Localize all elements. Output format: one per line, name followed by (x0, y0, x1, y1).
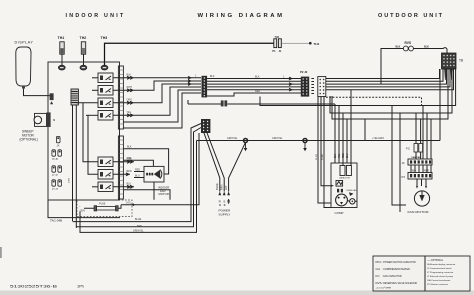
terminal chevrons before J2 (289, 77, 292, 91)
terminal chevrons before P2 (188, 76, 191, 85)
svg-text:: COMPRESSOR HEATER: : COMPRESSOR HEATER (382, 268, 410, 271)
wire bundle tail TB right (450, 69, 452, 80)
wire bundle b2 (207, 80, 301, 82)
connector J5 pills (52, 150, 56, 156)
wire TH2 lead (83, 54, 85, 65)
terminal arrows RY1 out (113, 76, 134, 79)
svg-text:JA: JA (57, 145, 60, 148)
wire branch J3 drops (423, 106, 431, 160)
compressor assembly box (331, 163, 357, 208)
terminal arrow E (227, 192, 230, 196)
connector J-A pill (56, 136, 60, 142)
svg-text:G/Y: G/Y (224, 185, 228, 190)
terminal block TB (442, 53, 457, 69)
wire bundle b3 (207, 83, 301, 85)
svg-text:: REVERSING VALVE SOLENOID: : REVERSING VALVE SOLENOID (382, 282, 417, 285)
svg-text:J5 Communication board: J5 Communication board (427, 267, 452, 270)
ground symbol 2 (303, 139, 307, 143)
svg-text:YEL: YEL (339, 153, 341, 158)
wire power slant E from earth point (229, 142, 246, 191)
wire P3 to fan motor (417, 179, 426, 187)
svg-text:GRN/YEL: GRN/YEL (133, 229, 144, 232)
svg-text:OUTDOOR UNIT: OUTDOOR UNIT (378, 13, 444, 19)
wire branch y119 (332, 69, 448, 119)
svg-text:FAN MOTOR: FAN MOTOR (408, 210, 430, 214)
capacitor CH (340, 166, 345, 176)
wire power slant S (207, 132, 225, 192)
wire outdoor aux drop 1 (392, 106, 406, 206)
connector TH1 socket (58, 65, 65, 70)
svg-text:CH: CH (376, 267, 380, 271)
svg-text:M: M (53, 118, 55, 122)
fuse F1 (94, 206, 97, 211)
wire trunk t5 (326, 69, 454, 90)
wire fan YEL (123, 160, 153, 166)
wire fan box bottom drop (153, 182, 155, 200)
wire outdoor left drop 3 (324, 96, 331, 208)
svg-text:FUSE: FUSE (99, 203, 106, 206)
svg-text:BLU: BLU (135, 174, 140, 177)
wire staircase w6 (123, 93, 201, 128)
svg-text:TH3: TH3 (101, 36, 108, 40)
svg-text:BLK: BLK (210, 75, 215, 78)
svg-text:24.5: 24.5 (126, 201, 131, 204)
svg-text:YEL: YEL (127, 157, 132, 160)
node TH4 sensor (309, 42, 312, 45)
indoor fan motor box (144, 166, 164, 182)
terminal arrows RY4 out (113, 114, 134, 117)
connector CN-DISP on board edge (50, 93, 54, 100)
terminal arrows RY6 out (113, 173, 130, 176)
svg-text:GRN/YEL: GRN/YEL (272, 137, 283, 140)
svg-text:BLK: BLK (255, 75, 260, 78)
connector TH3 socket (101, 65, 108, 70)
connector block J2 outdoor half (318, 77, 326, 97)
wire bundle b1 (207, 78, 301, 80)
svg-text:BLUE: BLUE (215, 183, 219, 190)
wire outdoor left drop 1 (318, 96, 331, 203)
svg-text:BLK: BLK (396, 45, 401, 48)
wire comp feed 2 (338, 106, 340, 164)
wire bundle tail TB left (444, 69, 446, 80)
relay RY3 (98, 98, 113, 108)
terminal arrow R (218, 192, 221, 196)
svg-text:J5 J5: J5 J5 (52, 158, 58, 161)
wire comp feed 5 (350, 90, 352, 166)
svg-text:CAPACITOR: CAPACITOR (339, 177, 350, 180)
wire TH4 thin (282, 42, 309, 44)
transformer T1 (71, 89, 78, 105)
connector JT pills (52, 180, 56, 186)
wire staircase w2 (134, 81, 201, 90)
left edge scan mark (0, 247, 2, 258)
svg-text:JA Remote display connector: JA Remote display connector (427, 263, 456, 266)
svg-text:J3: J3 (402, 161, 405, 165)
svg-text:23.8Ω: 23.8Ω (322, 154, 324, 160)
svg-text:+YEL/GRN: +YEL/GRN (372, 137, 384, 140)
overload protector OLP (336, 181, 343, 187)
relay RY6 (98, 170, 113, 180)
terminal arrows RY2 out (113, 89, 134, 92)
wire GRN/YEL bottom to ground bus (80, 141, 197, 233)
svg-text:TH4: TH4 (275, 36, 280, 39)
svg-text:BLUE: BLUE (135, 218, 142, 221)
wire outdoor aux drop 2 (399, 113, 401, 212)
wire TH1 lead (61, 54, 63, 65)
wire sensor line to outdoor (227, 103, 335, 105)
connector block P2 indoor half (202, 76, 208, 98)
terminal arrows RY3 out (113, 101, 134, 104)
indoor control board box TAC-04B (48, 62, 120, 200)
svg-text:RED: RED (343, 153, 345, 158)
terminal arrows RY7 out (113, 185, 134, 188)
wire optional dashed link (326, 97, 422, 105)
svg-text:J2A Current transformer: J2A Current transformer (427, 279, 451, 282)
svg-text:RED: RED (135, 168, 140, 171)
wire trunk t3 (326, 69, 447, 84)
svg-text:TH4: TH4 (314, 42, 320, 46)
connector power block PJ (201, 119, 210, 133)
connector TH2 socket (80, 65, 87, 70)
svg-text:230V: 230V (69, 177, 71, 183)
wire staircase w3 (134, 84, 201, 103)
wire BRN bottom (76, 128, 201, 227)
wire y119 to ground tap (364, 119, 366, 141)
svg-text:JT3 Heater connector: JT3 Heater connector (427, 283, 448, 286)
wire trunk t2 (326, 69, 443, 81)
svg-text:COMP: COMP (335, 211, 344, 215)
svg-text:MOTOR: MOTOR (159, 192, 169, 196)
svg-text:BRN: BRN (127, 187, 132, 190)
wire sensor line mid (188, 100, 221, 104)
svg-text:RVS: RVS (376, 281, 382, 285)
svg-text:WIRING DIAGRAM: WIRING DIAGRAM (198, 13, 285, 19)
connector CN mid pair (221, 100, 224, 106)
relay RY1 (98, 73, 113, 83)
svg-text:P2 J2: P2 J2 (300, 70, 308, 74)
wire power slant R (204, 132, 220, 192)
svg-text:: POWER FACTOR CAPACITOR: : POWER FACTOR CAPACITOR (382, 261, 416, 264)
relay RY4 (98, 111, 113, 121)
svg-text:SUPPLY: SUPPLY (219, 212, 231, 216)
wire J3 to P3 (411, 165, 431, 173)
wire trunk t4 (326, 69, 450, 87)
wire branch y105 (260, 69, 456, 106)
pcb edge connector strip upper (118, 66, 123, 129)
svg-text:BLK: BLK (424, 45, 429, 48)
wire staircase w4 (134, 87, 201, 115)
pcb edge connector strip lower (118, 136, 123, 199)
svg-text:(OPTIONAL): (OPTIONAL) (20, 138, 38, 142)
indoor fan motor M propeller (146, 173, 148, 176)
svg-text:51302525T36-B: 51302525T36-B (10, 284, 58, 289)
svg-text:1Ph: 1Ph (77, 285, 84, 289)
wire bundle b6 stepped (207, 93, 301, 96)
wire bundle b5 (207, 89, 301, 91)
wire RY1 stub (92, 77, 98, 79)
bottom scan band (0, 291, 474, 295)
wire ground bus (197, 140, 441, 142)
wire T1 secondary right (75, 105, 77, 228)
svg-text:J7 J7: J7 J7 (52, 174, 58, 177)
svg-text:BRN: BRN (127, 170, 132, 173)
thermal protector TP (350, 199, 355, 204)
wire bus to lower relays A (83, 103, 98, 162)
connector SM plug on board edge (46, 112, 50, 127)
wire branch y113 (330, 69, 452, 113)
terminal arrows RY5 out (113, 160, 134, 163)
wire FC feeds (416, 113, 421, 159)
relay RY2 (98, 86, 113, 96)
legend box (373, 256, 470, 291)
compressor COMP (336, 194, 348, 206)
svg-text:INDOOR UNIT: INDOOR UNIT (66, 13, 126, 19)
wire heater to power block (121, 133, 199, 205)
connector ticks J2 (311, 79, 314, 94)
svg-text:: FAN CAPACITOR: : FAN CAPACITOR (382, 275, 402, 278)
relay RY7 (98, 182, 113, 192)
connector mark box left (331, 185, 334, 187)
svg-text:P3: P3 (402, 175, 406, 179)
ground symbol 1 (244, 139, 248, 143)
wire fan BLU (134, 177, 144, 179)
svg-text:-----OPTIONAL: -----OPTIONAL (427, 259, 444, 262)
svg-text:BLK: BLK (335, 153, 337, 158)
wire comp feed 4 (346, 119, 348, 163)
wire comp feed 1 (334, 104, 336, 163)
compressor pins (337, 189, 339, 193)
wire TB ground drop (439, 69, 441, 141)
fuse box dashed (optional heater) (77, 200, 132, 217)
svg-text:S: S (223, 200, 225, 204)
relay RY5 (98, 157, 113, 167)
svg-text:TB: TB (459, 59, 463, 63)
svg-text:P1: P1 (272, 49, 276, 53)
wire TH3 thick lead (105, 43, 275, 65)
wire fan BLK (123, 149, 168, 174)
wire fan RED (134, 171, 144, 173)
svg-text:TH2: TH2 (80, 36, 87, 40)
wire comp feed 3 (342, 113, 344, 166)
svg-text:J7 Programming connector: J7 Programming connector (427, 271, 454, 274)
svg-text:+2.5 mm² WIRE: +2.5 mm² WIRE (376, 287, 392, 290)
wire outdoor left drop 2 (321, 96, 331, 186)
wire display to board (24, 89, 51, 96)
svg-text:JT External reheat & pump: JT External reheat & pump (427, 275, 454, 278)
svg-text:TH1: TH1 (58, 36, 65, 40)
svg-text:BLK: BLK (127, 146, 132, 149)
svg-text:21.5Ω: 21.5Ω (316, 154, 318, 160)
connector J7 pills (52, 166, 56, 172)
wire T1 secondary left (72, 105, 74, 221)
svg-text:BRN: BRN (137, 225, 142, 228)
svg-text:RVS: RVS (405, 41, 412, 45)
wire fan BRN lower (123, 190, 170, 200)
svg-text:BLU: BLU (347, 153, 349, 158)
wire staircase w5 (123, 90, 201, 122)
wire bundle b4 (207, 86, 301, 88)
connector P1 J1 (TH4 line) (274, 39, 277, 48)
wire staircase w1 (134, 77, 201, 79)
wire BLUE bottom (73, 124, 202, 222)
terminal arrow S (223, 192, 226, 196)
svg-text:DISPLAY: DISPLAY (15, 41, 34, 45)
wire board bottom left drop (48, 200, 120, 218)
wire bus to lower relays B (88, 115, 98, 174)
svg-text:JT JT: JT JT (52, 188, 58, 191)
wire RY2 stub (92, 89, 98, 91)
wire RY4 feed (86, 114, 98, 116)
wire RY3 feed (76, 102, 98, 104)
svg-text:BRN: BRN (219, 184, 223, 190)
wire trunk t1 (326, 69, 440, 79)
wire RY7 stub (92, 186, 98, 188)
svg-text:TAC-04B: TAC-04B (50, 219, 62, 223)
outdoor fan motor FM (414, 191, 429, 206)
svg-text:OVERLOAD: OVERLOAD (346, 189, 357, 192)
svg-text:GRN/YEL: GRN/YEL (227, 137, 238, 140)
